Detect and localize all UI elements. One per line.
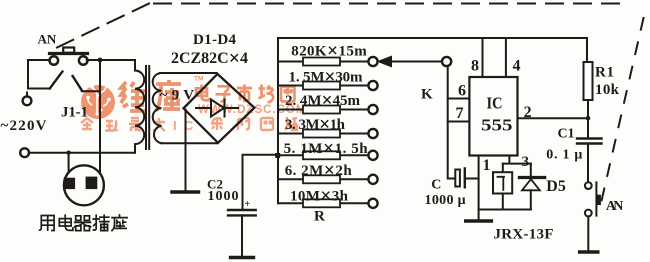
transformer secondary winding: [153, 73, 162, 143]
resistor R row7 10M: [278, 202, 368, 204]
pin 6 wire: [448, 98, 470, 100]
svg-text:C: C: [431, 177, 441, 192]
svg-text:J1-1: J1-1: [61, 105, 88, 121]
ground (C2): [231, 256, 254, 259]
svg-text:6. 2M×2h: 6. 2M×2h: [285, 161, 353, 182]
svg-text:K: K: [421, 87, 433, 103]
pushbutton AN actuator bar: [50, 52, 88, 55]
svg-text:10k: 10k: [595, 82, 620, 98]
wire: AN right contact to transformer primary top: [87, 60, 135, 71]
wire: neutral to transformer primary bottom: [29, 152, 135, 154]
svg-text:5. 1M×1. 5h: 5. 1M×1. 5h: [284, 139, 369, 160]
svg-text:AN: AN: [38, 32, 57, 47]
svg-text:C1: C1: [558, 127, 575, 142]
wire: live node down to socket: [99, 60, 101, 177]
wire: K pole down to pins 6/7 and C: [448, 66, 455, 178]
wire: neutral tap down to socket: [68, 153, 70, 178]
dashed cut line (top): [154, 3, 620, 5]
terminal: ~220V live input: [23, 96, 32, 105]
svg-text:+: +: [245, 199, 251, 210]
wire: secondary top to bridge top: [160, 72, 217, 74]
diode D5: [530, 164, 532, 177]
capacitor C2: [228, 210, 256, 215]
svg-text:R1: R1: [595, 65, 614, 81]
resistor R row6 6.2M: [278, 178, 368, 180]
svg-text:8: 8: [471, 58, 479, 75]
svg-text:R: R: [314, 209, 325, 225]
label 用电器插座: [40, 215, 128, 231]
wire: secondary bottom to bridge bottom (AC): [162, 142, 218, 144]
wire: AN2 to ground: [587, 217, 589, 251]
terminal: ~220V neutral input: [20, 148, 29, 157]
pin 1 wire: [478, 156, 480, 220]
pushbutton AN (trigger): [585, 182, 592, 189]
bridge rectifier D1-D4: [184, 74, 255, 143]
resistor R row3 2.4M: [278, 109, 368, 111]
capacitor C1: [577, 139, 602, 144]
relay coil J (JRX-13F): [502, 164, 504, 173]
svg-text:555: 555: [481, 116, 513, 135]
wire: relay/D5 bottom rail to pin1: [479, 209, 531, 211]
svg-text:1000 μ: 1000 μ: [425, 193, 466, 208]
resistor R row5 5.1M: [278, 154, 368, 156]
resistor bank left bus: [277, 38, 279, 203]
relay contact J1-1 blade: [73, 76, 82, 90]
junction: pin2 node: [586, 116, 591, 121]
capacitor C 1000u: [455, 170, 460, 187]
svg-text:D1-D4: D1-D4: [193, 32, 237, 48]
svg-text:JRX-13F: JRX-13F: [494, 227, 554, 243]
pin 4 wire: [505, 38, 507, 77]
wire: J1-1 blade to live node: [82, 90, 100, 92]
wire: C2 to ground: [241, 215, 243, 256]
pin 8 wire: [482, 38, 484, 77]
+V top rail: [278, 37, 587, 39]
dashed cut line (right diagonal): [601, 18, 644, 203]
ground (AN2): [580, 250, 598, 253]
resistor R row1 820K: [278, 61, 368, 63]
wire: R1 to C1: [587, 100, 589, 139]
svg-text:1. 5M×30m: 1. 5M×30m: [289, 67, 364, 88]
ground (bridge negative): [172, 190, 199, 193]
svg-text:3. 3M×1h: 3. 3M×1h: [285, 114, 346, 135]
resistor R row2 1.5M: [278, 85, 368, 87]
svg-text:3: 3: [522, 154, 530, 170]
appliance socket (用电器插座): [64, 165, 104, 205]
ground (pin 1): [466, 219, 492, 222]
svg-text:AN: AN: [606, 199, 624, 214]
junction: neutral tap: [66, 151, 70, 155]
svg-text:1000: 1000: [208, 189, 239, 204]
svg-text:D5: D5: [546, 178, 566, 195]
wire: C1 to AN2: [587, 144, 589, 182]
svg-text:TM: TM: [194, 76, 203, 83]
svg-text:7: 7: [456, 105, 464, 122]
selector K arrow: [390, 61, 442, 63]
svg-text:2CZ82C×4: 2CZ82C×4: [171, 48, 248, 70]
svg-text:2: 2: [524, 104, 532, 121]
pin 7 wire: [448, 121, 470, 123]
dashed cut line (top-left diagonal): [57, 3, 150, 48]
svg-text:820K×15m: 820K×15m: [291, 41, 367, 62]
svg-text:10M×3h: 10M×3h: [290, 186, 349, 207]
resistor R1: [586, 38, 588, 62]
transformer T primary winding: [135, 71, 144, 153]
wire: +V feed to resistor bank: [243, 155, 277, 209]
transformer core: [146, 66, 149, 149]
wire: bridge minus to ground: [185, 110, 187, 191]
svg-text:IC: IC: [487, 94, 503, 113]
svg-text:1: 1: [483, 157, 491, 174]
pushbutton AN right contact: [79, 56, 88, 65]
svg-text:4: 4: [513, 58, 521, 75]
junction: +V at bank: [275, 153, 280, 158]
junction: live node: [98, 58, 103, 63]
pin 3 wire: [503, 156, 531, 164]
svg-text:2. 4M×45m: 2. 4M×45m: [285, 90, 361, 111]
wire: left contact to left rail: [28, 60, 50, 89]
selector K pole: [442, 57, 451, 66]
pin 2 wire: [518, 117, 589, 119]
svg-text:0. 1 μ: 0. 1 μ: [546, 148, 582, 163]
resistor R row4 3.3M: [278, 133, 368, 135]
switch blade AN left pole: [50, 72, 63, 89]
pushbutton AN left contact: [50, 56, 59, 65]
svg-text:~220V: ~220V: [1, 118, 47, 134]
svg-text:I: I: [173, 118, 177, 133]
op IC 555: [469, 77, 517, 156]
svg-text:6: 6: [458, 83, 466, 100]
